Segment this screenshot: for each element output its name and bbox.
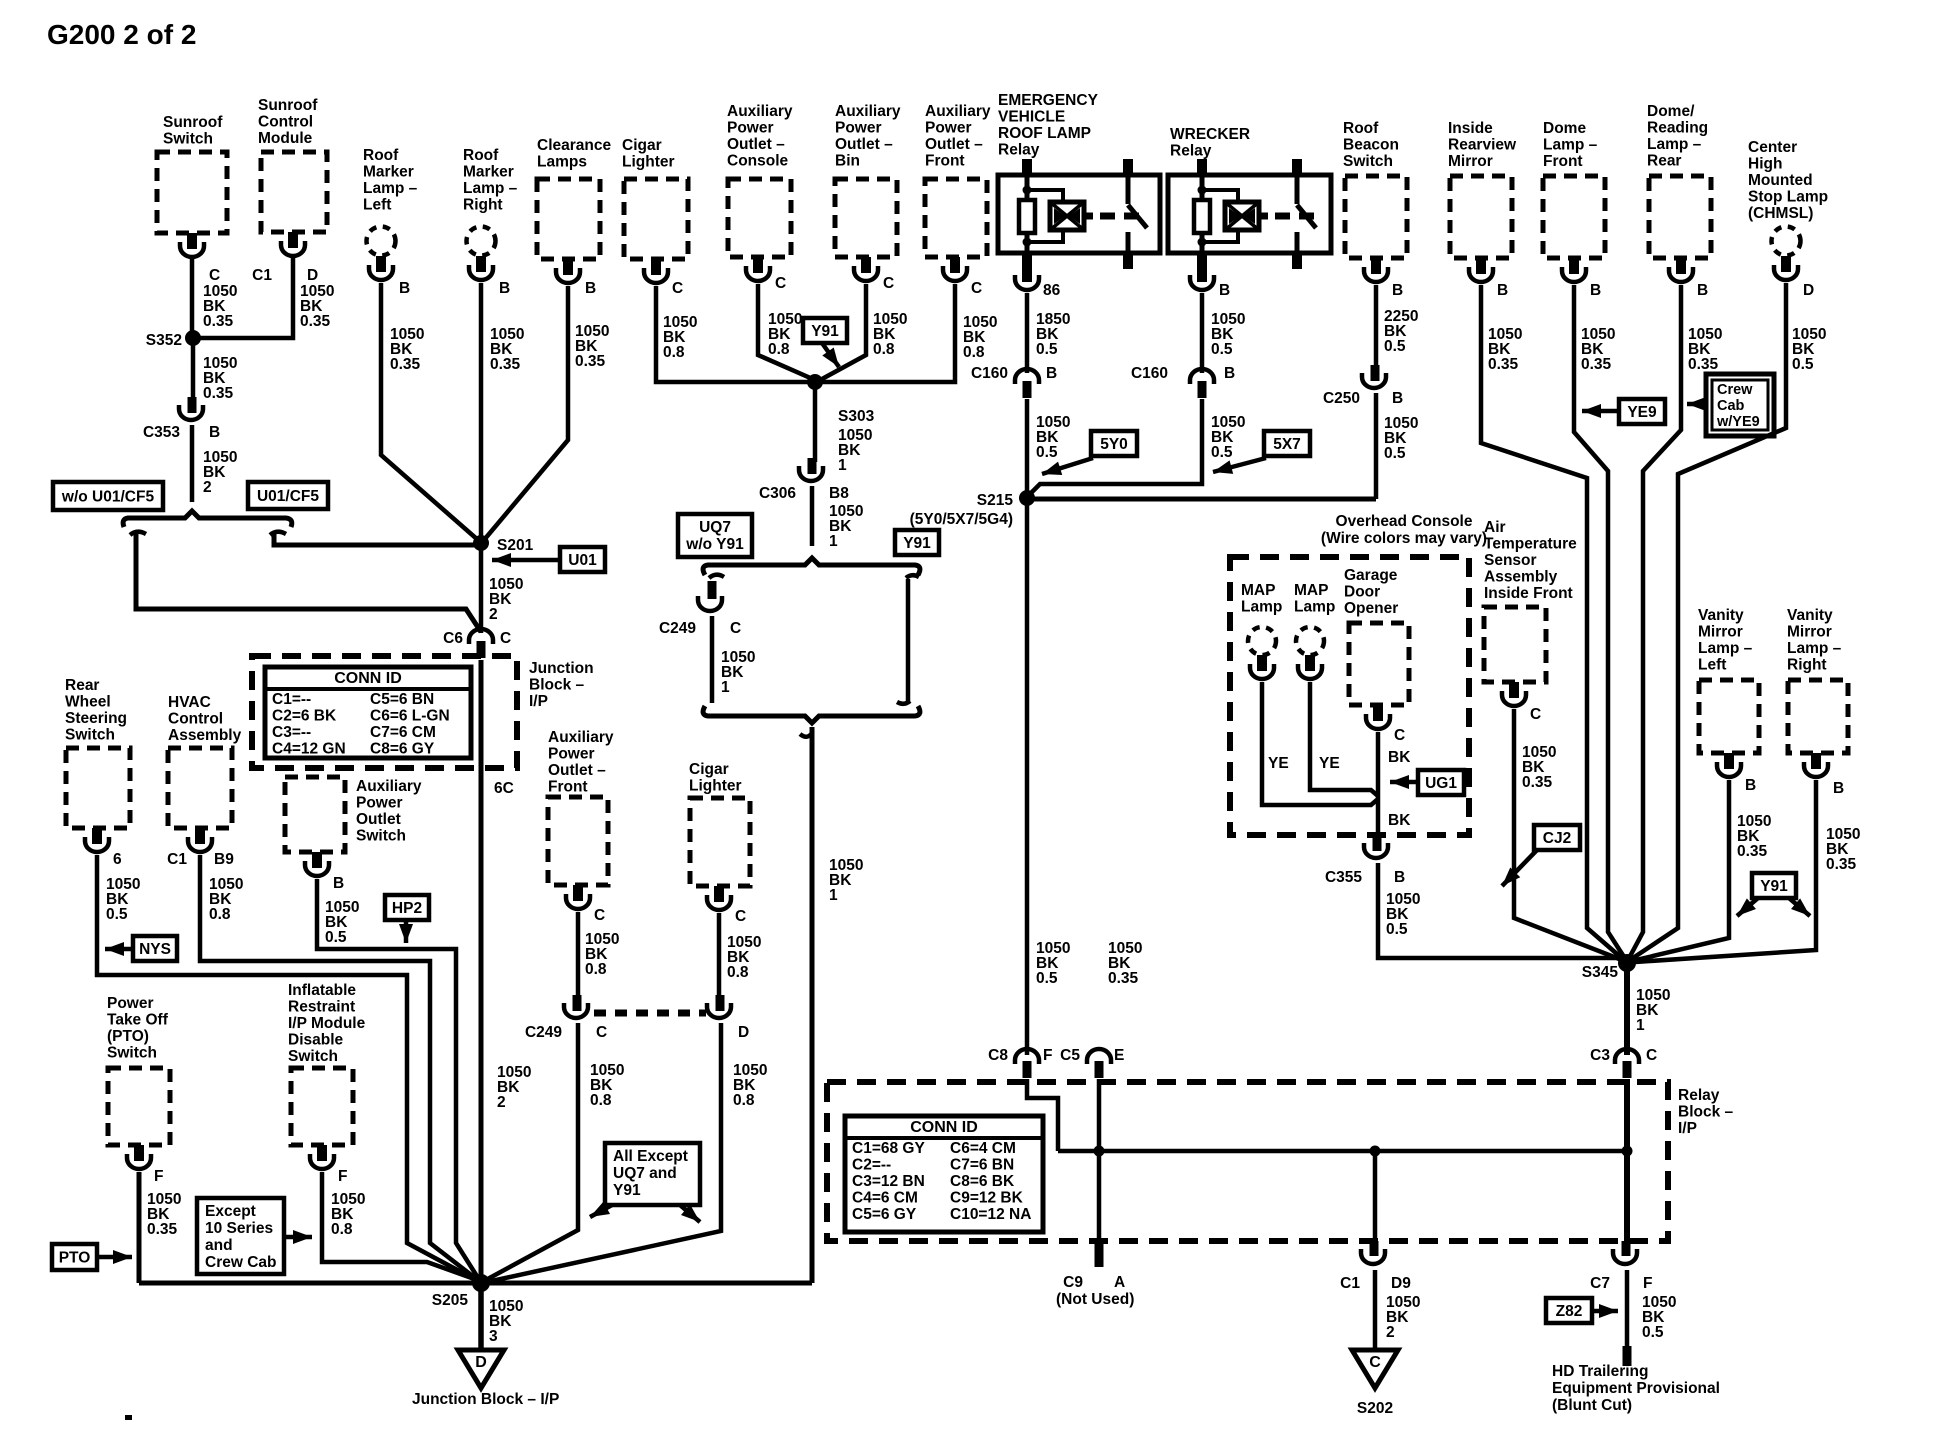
svg-text:C: C [1530,706,1541,723]
svg-text:Temperature: Temperature [1484,536,1577,553]
connector C250 (roof beacon) [1323,365,1403,407]
svg-text:Rear: Rear [65,677,99,694]
svg-text:0.35: 0.35 [203,385,234,402]
wire Roof Beacon Switch to C250 [1376,285,1418,369]
svg-text:w/o U01/CF5: w/o U01/CF5 [61,489,155,506]
svg-text:w/YE9: w/YE9 [1716,414,1760,430]
svg-text:C6: C6 [443,630,463,647]
svg-text:Mirror: Mirror [1698,624,1743,641]
stray mark [125,1415,132,1420]
wire C249 to S205 [484,1023,624,1281]
svg-text:Crew: Crew [1717,382,1753,398]
wire D9 branch [1373,1151,1378,1243]
splice S352 [146,330,201,349]
svg-text:Switch: Switch [107,1045,157,1062]
svg-text:Left: Left [363,197,391,214]
wire S352 to C353 [193,338,237,402]
option label PTO with arrow [52,1244,132,1270]
svg-text:C: C [730,620,741,637]
svg-text:C1: C1 [167,851,187,868]
svg-text:1: 1 [721,679,730,696]
connector B at Roof Beacon Switch [1364,258,1403,299]
svg-text:C: C [209,267,220,284]
wire Vanity Mirror Lamp Left to S345 [1632,780,1771,961]
svg-text:C5=6 GY: C5=6 GY [852,1206,917,1223]
junction dot D9 bus [1370,1146,1381,1157]
svg-text:C9: C9 [1063,1274,1083,1291]
wire C353 to option split [192,425,237,502]
svg-text:C10=12 NA: C10=12 NA [950,1206,1031,1223]
junction dot C3 bus [1622,1146,1633,1157]
svg-text:C249: C249 [659,620,696,637]
svg-text:0.8: 0.8 [663,344,685,361]
svg-text:Rearview: Rearview [1448,137,1517,154]
connector C8 F into Relay Block [988,1047,1052,1078]
svg-text:Outlet –: Outlet – [835,136,893,153]
svg-text:HVAC: HVAC [168,694,211,711]
wire S205 to junction block triangle [481,1283,523,1350]
svg-text:Vanity: Vanity [1698,607,1744,624]
svg-text:Inside: Inside [1448,120,1493,137]
triangle connector D to Junction Block - I/P [412,1350,559,1408]
svg-text:0.35: 0.35 [575,353,606,370]
svg-text:(CHMSL): (CHMSL) [1748,205,1813,222]
connector 86 at Emergency relay [1015,266,1061,299]
svg-text:S202: S202 [1357,1400,1393,1417]
svg-text:Inflatable: Inflatable [288,982,356,999]
svg-text:0.8: 0.8 [768,341,790,358]
svg-text:D: D [475,1354,487,1371]
svg-text:Module: Module [258,130,313,147]
svg-text:Sensor: Sensor [1484,552,1537,569]
wire S201 to C6 [481,543,523,633]
svg-text:Assembly: Assembly [168,727,242,744]
connector B at Roof Marker Lamp - Right [469,256,510,297]
wire Aux Power Outlet Front to C249 [578,912,619,999]
svg-text:Junction Block – I/P: Junction Block – I/P [412,1391,559,1408]
connector C at Garage Door Opener [1366,705,1405,744]
svg-text:MAP: MAP [1241,582,1275,599]
svg-text:Block –: Block – [529,677,585,694]
component Power Take Off (PTO) Switch [107,995,170,1145]
svg-text:Lamp –: Lamp – [1647,136,1702,153]
svg-text:C7: C7 [1590,1275,1610,1292]
svg-text:Switch: Switch [288,1048,338,1065]
svg-text:0.35: 0.35 [1688,356,1719,373]
svg-text:3: 3 [489,1328,498,1345]
svg-text:UG1: UG1 [1425,775,1457,792]
svg-text:C3=--: C3=-- [272,724,311,741]
wire C5 through relay block to C9 [1099,940,1142,1241]
svg-text:Outlet –: Outlet – [925,136,983,153]
title G200 2 of 2 [47,19,196,50]
svg-text:Roof: Roof [463,147,499,164]
svg-text:0.5: 0.5 [1036,444,1058,461]
svg-text:I/P Module: I/P Module [288,1015,366,1032]
wire Cigar Lighter lower to D connector [719,913,761,999]
wire Dome/Reading Lamp Rear to S345 [1628,285,1722,960]
junction block I/P dashed box [252,656,594,768]
wire Air Temperature Sensor to S345 [1514,709,1622,960]
svg-text:Except: Except [205,1203,256,1220]
svg-text:B: B [1833,780,1844,797]
svg-text:0.5: 0.5 [1642,1324,1664,1341]
svg-text:Left: Left [1698,657,1726,674]
svg-text:0.35: 0.35 [1488,356,1519,373]
svg-text:S352: S352 [146,332,182,349]
wire S303 to C306 [815,382,872,474]
wire junction block trunk to S205 [481,660,531,1283]
svg-text:YE: YE [1319,755,1340,772]
option label Y91 (branch) [895,530,939,555]
svg-text:Lighter: Lighter [689,778,742,795]
svg-text:MAP: MAP [1294,582,1328,599]
svg-text:0.5: 0.5 [1384,445,1406,462]
svg-text:U01/CF5: U01/CF5 [257,488,319,505]
svg-text:0.5: 0.5 [1036,970,1058,987]
wire branch w/o U01/CF5 [130,532,481,632]
component Rear Wheel Steering Switch [65,677,130,828]
svg-text:10 Series: 10 Series [205,1220,273,1237]
svg-text:C5=6 BN: C5=6 BN [370,691,434,708]
svg-text:B: B [1697,282,1708,299]
wire C160 to S215 [1027,399,1070,498]
component Auxiliary Power Outlet Switch [285,777,422,852]
svg-text:Roof: Roof [1343,120,1379,137]
wire C8 jog inside relay block [1027,1079,1058,1151]
svg-text:Cigar: Cigar [689,761,729,778]
svg-text:C: C [735,908,746,925]
connector C355 [1325,835,1405,886]
svg-text:D: D [1803,282,1814,299]
svg-text:Front: Front [1543,153,1583,170]
svg-text:0.8: 0.8 [733,1092,755,1109]
svg-text:0.5: 0.5 [1384,338,1406,355]
wire Inside Rearview Mirror to S345 [1481,285,1624,960]
svg-text:C: C [1394,727,1405,744]
svg-text:0.5: 0.5 [325,929,347,946]
connector C160 (left) [971,365,1057,398]
svg-text:0.35: 0.35 [203,313,234,330]
svg-text:C355: C355 [1325,869,1362,886]
svg-text:Take Off: Take Off [107,1012,169,1029]
svg-text:B: B [585,280,596,297]
svg-text:YE9: YE9 [1627,404,1657,421]
svg-text:Mirror: Mirror [1787,624,1832,641]
svg-text:B: B [1745,777,1756,794]
svg-text:S205: S205 [432,1292,469,1309]
svg-text:Auxiliary: Auxiliary [835,103,901,120]
svg-text:B: B [1497,282,1508,299]
svg-text:and: and [205,1237,233,1254]
wire Wrecker relay to C160 [1202,293,1245,373]
svg-text:UQ7 and: UQ7 and [613,1165,677,1182]
svg-text:C1: C1 [252,267,272,284]
svg-text:2: 2 [203,479,212,496]
svg-text:C8=6 BK: C8=6 BK [950,1173,1015,1190]
svg-text:Lamp –: Lamp – [1698,640,1753,657]
svg-text:C7=6 CM: C7=6 CM [370,724,436,741]
option label U01/CF5 [248,482,328,509]
svg-text:Lamp: Lamp [1241,599,1282,616]
svg-text:Outlet: Outlet [356,811,401,828]
UQ7 split bottom bracket [703,706,920,723]
svg-text:0.5: 0.5 [1792,356,1814,373]
overhead console dashed box [1230,513,1487,835]
svg-text:Switch: Switch [1343,153,1393,170]
svg-text:Outlet –: Outlet – [727,136,785,153]
svg-text:S201: S201 [497,537,534,554]
component Air Temperature Sensor Assembly Inside Front [1484,519,1577,682]
wire C306 to UQ7 split [812,486,863,550]
svg-text:0.35: 0.35 [1826,856,1857,873]
connector F at Inflatable Restraint Switch [310,1145,347,1185]
connector F at PTO Switch [127,1145,163,1185]
wire MAP Lamp right to garage door opener wire [1310,682,1378,796]
svg-text:Power: Power [356,795,403,812]
option label UG1 with arrow [1390,770,1464,795]
svg-text:B: B [333,875,344,892]
svg-text:Auxiliary: Auxiliary [548,729,614,746]
wire Aux Power Outlet Switch to S205 [317,879,480,1281]
svg-text:Steering: Steering [65,710,127,727]
svg-text:All Except: All Except [613,1148,688,1165]
svg-text:B: B [1394,869,1405,886]
component Clearance Lamps [537,137,611,259]
wire Emergency relay pin 86 to C160 [1027,293,1070,373]
svg-text:1: 1 [829,887,838,904]
wire UQ7 split to S205 trunk [800,727,863,1283]
wire S215 down to C8 [1027,498,1070,1055]
wire Sunroof Control Module to S352 [200,258,334,338]
svg-text:2: 2 [497,1094,506,1111]
svg-text:B9: B9 [214,851,234,868]
svg-text:F: F [338,1168,347,1185]
table CONN ID (junction block) [265,667,471,758]
svg-text:Lighter: Lighter [622,154,675,171]
svg-text:S345: S345 [1582,964,1619,981]
connector C9 A not used [1056,1241,1134,1308]
svg-text:I/P: I/P [1678,1120,1697,1137]
svg-text:C: C [1369,1354,1381,1371]
component Roof Beacon Switch [1343,120,1407,258]
option label Z82 with arrow [1546,1298,1618,1323]
wire Aux Power Outlet Bin to S303 [822,284,907,379]
svg-text:0.5: 0.5 [1211,341,1233,358]
svg-text:2: 2 [1386,1324,1395,1341]
svg-text:86: 86 [1043,282,1061,299]
svg-text:Outlet –: Outlet – [548,762,606,779]
svg-text:Marker: Marker [463,164,514,181]
svg-text:5Y0: 5Y0 [1100,436,1128,453]
wire Inflatable Restraint Switch to S205 [322,1172,480,1281]
svg-text:A: A [1114,1274,1125,1291]
component HVAC Control Assembly [168,694,242,828]
option label YE9 with arrow [1582,399,1665,424]
svg-text:0.35: 0.35 [147,1221,178,1238]
wire Roof Marker Lamp - Right to S201 [481,283,524,543]
svg-text:C: C [971,280,982,297]
connector C at Aux Power Outlet Front (top) [943,257,982,297]
svg-text:Assembly: Assembly [1484,569,1558,586]
svg-text:C1=--: C1=-- [272,691,311,708]
wire C7 to blunt cut [1627,1270,1676,1352]
component Roof Marker Lamp - Left [363,147,418,256]
svg-text:Sunroof: Sunroof [163,114,223,131]
svg-text:Switch: Switch [356,828,406,845]
svg-text:C250: C250 [1323,390,1360,407]
svg-text:Lamp –: Lamp – [1787,640,1842,657]
option label CJ2 with arrow [1497,825,1580,891]
svg-text:Stop Lamp: Stop Lamp [1748,189,1828,206]
svg-text:C160: C160 [971,365,1008,382]
svg-text:Reading: Reading [1647,120,1708,137]
component Auxiliary Power Outlet - Front (middle) [548,729,614,885]
component Roof Marker Lamp - Right [463,147,518,256]
svg-text:0.35: 0.35 [490,356,521,373]
component MAP Lamp (left) [1241,582,1282,655]
svg-text:Y91: Y91 [811,323,839,340]
svg-text:CONN ID: CONN ID [910,1119,978,1136]
svg-text:C1=68 GY: C1=68 GY [852,1140,925,1157]
splice S205 [432,1274,490,1309]
svg-text:(PTO): (PTO) [107,1028,149,1045]
svg-text:Power: Power [107,995,154,1012]
wire S345 to C3 [1627,963,1670,1055]
svg-text:Z82: Z82 [1556,1303,1583,1320]
svg-text:C353: C353 [143,424,180,441]
connector B at Inside Rearview Mirror [1469,258,1508,299]
splice S303 [807,374,875,425]
svg-text:C160: C160 [1131,365,1168,382]
option label HP2 with arrow [385,895,429,943]
connector C249 on UQ7 branch [659,575,741,637]
connector B at Wrecker relay [1190,266,1230,299]
svg-text:CJ2: CJ2 [1543,830,1571,847]
component Vanity Mirror Lamp - Left [1698,607,1759,753]
svg-text:Y91: Y91 [613,1182,641,1199]
svg-text:0.35: 0.35 [1581,356,1612,373]
splice S201 [473,535,534,554]
connector C249 (aux front wire) [525,995,607,1041]
svg-text:UQ7: UQ7 [699,519,731,536]
svg-text:Power: Power [925,120,972,137]
relay EMERGENCY VEHICLE ROOF LAMP Relay [998,92,1160,269]
svg-text:w/o Y91: w/o Y91 [685,536,744,553]
option label Except 10 Series and Crew Cab with arrow [197,1198,312,1274]
option split bracket [123,511,292,527]
wire C249 branch to bottom bracket [712,616,755,703]
connector C at Air Temperature Sensor [1502,682,1541,723]
svg-text:B: B [1219,282,1230,299]
svg-text:Right: Right [1787,657,1827,674]
svg-text:0.8: 0.8 [585,961,607,978]
svg-text:0.8: 0.8 [963,344,985,361]
svg-text:Junction: Junction [529,660,594,677]
svg-text:Opener: Opener [1344,600,1398,617]
option label Y91 (vanity) with arrows [1732,873,1814,921]
svg-text:0.5: 0.5 [1386,921,1408,938]
svg-text:B: B [1590,282,1601,299]
svg-text:B: B [1046,365,1057,382]
svg-text:S215: S215 [977,492,1014,509]
component Sunroof Control Module [258,97,327,232]
svg-text:1: 1 [1636,1017,1645,1034]
connector C at Cigar Lighter [644,259,683,297]
triangle connector C to S202 [1352,1350,1398,1417]
svg-text:C5: C5 [1060,1047,1080,1064]
svg-text:C2=6 BK: C2=6 BK [272,708,337,725]
splice S345 [1582,954,1636,981]
svg-text:0.8: 0.8 [590,1092,612,1109]
svg-text:Switch: Switch [65,727,115,744]
wire PTO Switch to S205 [139,1172,812,1283]
wire S215 horizontal to Roof Beacon wire [1027,497,1376,502]
svg-text:Roof: Roof [363,147,399,164]
svg-text:Block –: Block – [1678,1104,1734,1121]
connector 6 at Rear Wheel Steering Switch [85,828,122,868]
svg-text:EMERGENCY: EMERGENCY [998,92,1099,109]
svg-text:WRECKER: WRECKER [1170,126,1250,143]
svg-text:C: C [500,630,511,647]
svg-text:0.5: 0.5 [106,906,128,923]
svg-text:HP2: HP2 [392,900,422,917]
connector C at Cigar Lighter (lower) [707,886,746,925]
connector D at CHMSL [1774,256,1814,299]
svg-text:0.5: 0.5 [1036,341,1058,358]
svg-text:Dome/: Dome/ [1647,103,1695,120]
connector at MAP Lamp (right) [1298,655,1322,679]
svg-text:Auxiliary: Auxiliary [356,778,422,795]
svg-text:Mounted: Mounted [1748,172,1813,189]
svg-text:Clearance: Clearance [537,137,611,154]
svg-text:B: B [399,280,410,297]
connector C3 into Relay Block [1590,1047,1657,1078]
svg-text:5X7: 5X7 [1273,436,1301,453]
wire C355 to S345 [1378,863,1627,963]
svg-text:I/P: I/P [529,693,548,710]
option label w/o U01/CF5 [53,482,163,510]
connector C353 [143,397,220,441]
svg-text:D9: D9 [1391,1275,1411,1292]
relay block I/P dashed box [827,1082,1734,1241]
svg-text:F: F [1043,1047,1052,1064]
svg-text:Relay: Relay [1170,143,1212,160]
svg-text:C7=6 BN: C7=6 BN [950,1157,1014,1174]
svg-text:CONN ID: CONN ID [334,670,402,687]
svg-text:C1: C1 [1340,1275,1360,1292]
component Vanity Mirror Lamp - Right [1787,607,1848,753]
svg-text:C: C [594,907,605,924]
svg-text:BK: BK [1388,812,1411,829]
label 6C [494,780,514,797]
svg-text:Mirror: Mirror [1448,153,1493,170]
svg-text:6: 6 [113,851,122,868]
svg-text:HD Trailering: HD Trailering [1552,1363,1648,1380]
svg-text:Crew Cab: Crew Cab [205,1254,277,1271]
wire D9 to S202 triangle [1375,1270,1420,1350]
component Auxiliary Power Outlet - Bin [835,103,901,257]
svg-text:E: E [1114,1047,1124,1064]
wire Aux Power Outlet Console to S303 [758,284,815,380]
svg-text:0.5: 0.5 [1211,444,1233,461]
svg-text:Right: Right [463,197,503,214]
svg-text:Cab: Cab [1717,398,1745,414]
svg-text:Center: Center [1748,139,1797,156]
svg-text:Marker: Marker [363,164,414,181]
svg-text:Power: Power [835,120,882,137]
connector C1 B9 at HVAC [167,828,234,868]
